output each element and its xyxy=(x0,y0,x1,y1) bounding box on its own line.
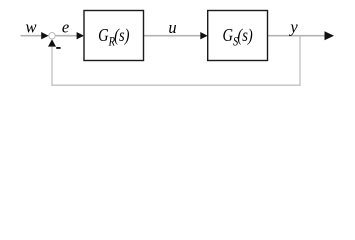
svg-text:w: w xyxy=(25,18,36,37)
svg-text:e: e xyxy=(62,18,69,37)
svg-text:y: y xyxy=(288,18,298,37)
svg-text:u: u xyxy=(168,18,176,37)
